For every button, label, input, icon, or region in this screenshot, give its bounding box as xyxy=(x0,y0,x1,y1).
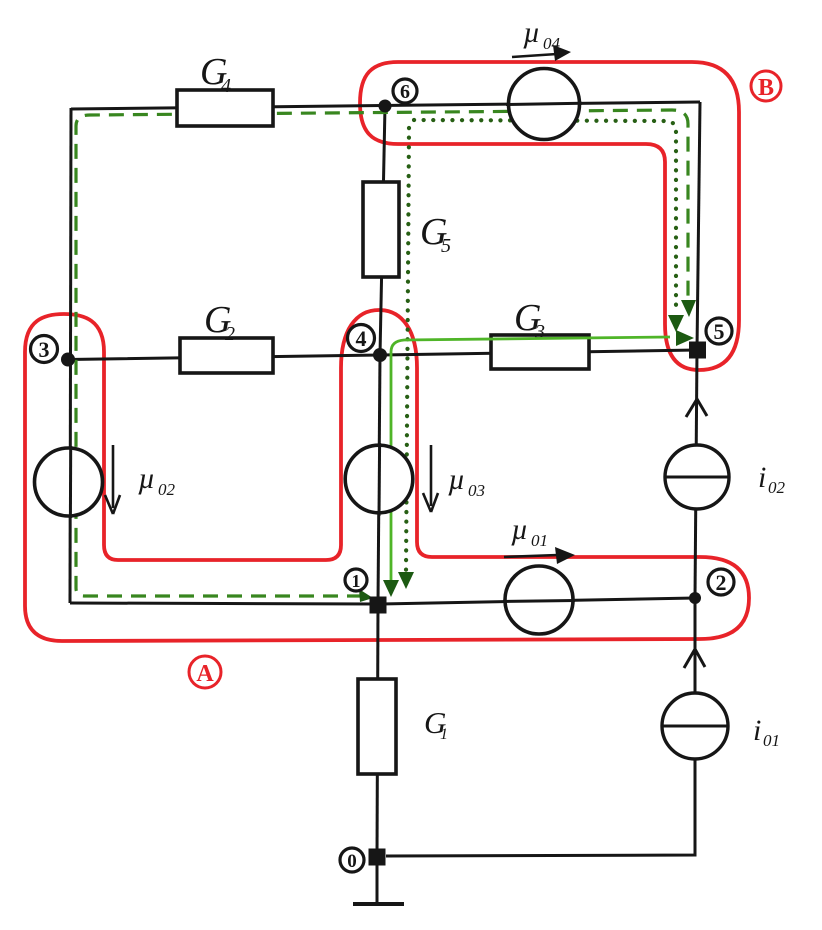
voltage source u04 xyxy=(506,69,582,140)
svg-text:µ: µ xyxy=(448,463,465,496)
svg-text:02: 02 xyxy=(768,478,786,497)
svg-text:1: 1 xyxy=(352,571,361,591)
voltage source u04 value label xyxy=(523,16,561,53)
node 2 label xyxy=(708,569,734,595)
svg-text:4: 4 xyxy=(356,326,367,351)
svg-text:µ: µ xyxy=(511,513,528,546)
ground xyxy=(353,902,404,906)
resistor G1 value label xyxy=(424,705,448,743)
svg-text:01: 01 xyxy=(763,731,780,750)
svg-text:2: 2 xyxy=(225,323,235,345)
green dotted arrowhead at node 5 xyxy=(668,315,684,332)
voltage source u03 xyxy=(345,443,413,516)
resistor G4 value label xyxy=(200,51,231,97)
wire: node 4 to node 1 (through u03) xyxy=(378,355,380,604)
svg-text:B: B xyxy=(758,75,774,101)
svg-text:A: A xyxy=(196,661,214,687)
svg-text:5: 5 xyxy=(714,319,725,344)
voltage source u04 reference arrow xyxy=(512,45,571,61)
voltage source u01 xyxy=(503,566,575,634)
svg-text:i: i xyxy=(758,461,766,494)
wire: right vertical mid (node 5 to node 2 through i02) xyxy=(695,350,697,598)
node 3 label xyxy=(31,336,58,363)
resistor G2 xyxy=(180,338,273,373)
wire: right vertical lower and bottom-right return (node 2 through i01 to node 0) xyxy=(386,598,695,856)
svg-text:02: 02 xyxy=(158,480,176,499)
voltage source u02 reference arrow xyxy=(105,445,120,514)
wire: top (node3 corner to top-right corner, through G4, node 6, u04) xyxy=(71,102,700,109)
node 6 label xyxy=(393,79,417,103)
node 2 junction dot xyxy=(689,592,701,604)
voltage source u02 xyxy=(35,446,103,518)
wire: bottom (bottom-left corner to node 2, through node 1 and u01) xyxy=(70,598,695,604)
node 4 label xyxy=(348,325,375,352)
current source i01 direction arrow xyxy=(684,649,705,668)
svg-text:6: 6 xyxy=(400,81,410,103)
current source i02 direction arrow xyxy=(686,399,707,417)
green solid annotation path (node 4 to node 5 and node 4 to node 1) xyxy=(391,337,670,581)
green dotted annotation path (node 6 to node 5) xyxy=(414,120,676,310)
svg-text:0: 0 xyxy=(347,851,357,872)
wire: left vertical (top-left corner to bottom-left corner, through node 3 and u02) xyxy=(70,108,71,603)
resistor G3 xyxy=(491,335,589,369)
svg-text:03: 03 xyxy=(468,481,485,500)
svg-text:2: 2 xyxy=(716,570,727,595)
node 5 label xyxy=(706,318,732,344)
svg-text:µ: µ xyxy=(523,16,540,49)
node 1 label xyxy=(345,569,367,591)
node 5 junction square xyxy=(689,342,706,359)
node 0 label xyxy=(340,848,364,872)
resistor G3 value label xyxy=(514,297,545,343)
voltage source u01 reference arrow xyxy=(504,547,575,564)
green dashed annotation path (node 1 - node 3 - node 6 - node 5) xyxy=(76,110,688,596)
green solid arrowhead at node 1 xyxy=(383,580,399,597)
node 6 junction dot xyxy=(379,100,392,113)
resistor G4 xyxy=(177,90,273,126)
svg-text:01: 01 xyxy=(531,531,548,550)
svg-text:i: i xyxy=(753,714,761,747)
loop A (red mesh outline) xyxy=(25,310,749,641)
node 1 junction square xyxy=(370,597,387,614)
green dashed arrowhead at node 5 xyxy=(681,300,696,317)
label B (red circled) xyxy=(751,71,781,101)
green solid arrowhead at node 5 xyxy=(676,330,694,346)
voltage source u03 reference arrow xyxy=(423,445,438,512)
label A (red circled) xyxy=(189,656,221,688)
svg-text:1: 1 xyxy=(440,726,448,743)
node 4 junction dot xyxy=(373,348,387,362)
loop B (red mesh outline) xyxy=(360,62,739,370)
wire: node 0 to ground xyxy=(376,857,379,902)
current source i02 value label xyxy=(758,461,786,497)
voltage source u01 value label xyxy=(511,513,548,550)
node 3 junction dot xyxy=(61,353,75,367)
resistor G2 value label xyxy=(204,299,235,345)
green dotted annotation path (node 6 down to node 1) xyxy=(406,128,409,572)
svg-text:4: 4 xyxy=(221,75,231,97)
wire: middle row (node 3 to node 5, through G2, node 4, G3) xyxy=(68,350,697,360)
green dotted arrowhead at node 1 xyxy=(398,572,414,589)
current source i01 value label xyxy=(753,714,780,750)
svg-text:3: 3 xyxy=(39,337,50,362)
resistor G1 xyxy=(358,679,396,774)
voltage source u02 value label xyxy=(138,462,176,499)
svg-text:5: 5 xyxy=(441,235,451,257)
svg-text:µ: µ xyxy=(138,462,155,495)
wire: right vertical upper (top-right corner to node 5) xyxy=(697,102,700,350)
current source i01 xyxy=(662,693,728,759)
voltage source u03 value label xyxy=(448,463,485,500)
current source i02 xyxy=(665,445,729,509)
wire: node 1 to node 0 (through G1) xyxy=(377,604,378,857)
wire: node 6 to node 4 (through G5) xyxy=(380,106,385,355)
resistor G5 value label xyxy=(420,211,451,257)
green dashed arrowhead at node 1 xyxy=(359,589,373,602)
node 0 junction square xyxy=(369,849,386,866)
resistor G5 xyxy=(363,182,399,277)
